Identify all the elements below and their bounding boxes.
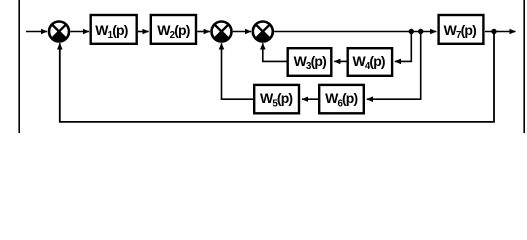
wire W1 to W2 [138,31,149,33]
wire S3 to W7 [274,31,436,33]
frame border left [18,0,20,133]
wire W3 to S3 [263,43,287,61]
block W1 [91,15,137,44]
block W2 [151,15,196,44]
wire W7 output arrow [485,31,516,33]
node tap to W4 [409,29,414,34]
summing junction S3 [253,22,273,42]
node tap to W6 [418,29,423,34]
wire input arrow [26,31,47,33]
wire tap to W6 input [367,32,421,100]
block W7 [439,15,484,44]
summing junction S1 [49,22,69,42]
wire outer feedback to S1 [60,32,494,122]
wire W4 to W3 [334,60,346,62]
wire W5 to S2 [222,43,254,99]
wire tap to W4 input [395,32,412,62]
summing junction S2 [212,22,232,42]
node output tap [491,29,496,34]
frame border right [523,0,525,133]
block W3 [288,48,332,76]
wire W2 to S2 [197,31,210,33]
wire S1 to W1 [70,31,89,33]
block W6 [319,85,364,113]
block W4 [348,48,392,76]
wire W6 to W5 [302,98,318,100]
wire S2 to S3 [233,31,251,33]
block W5 [254,85,299,113]
